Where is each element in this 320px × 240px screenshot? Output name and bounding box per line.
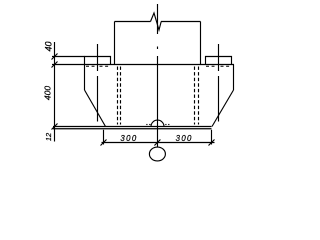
node center axis main [157, 56, 159, 147]
node right plate centerline lower [218, 76, 220, 122]
wire base line lower [53, 128, 212, 130]
svg-text:400: 400 [43, 86, 53, 100]
wire hidden edge under right plate (left of axis) [206, 65, 215, 67]
wire hidden edge under left plate (right of axis) [100, 65, 109, 67]
wire hidden edge under left plate (left of axis) [86, 65, 95, 67]
node right plate centerline upper [218, 44, 220, 71]
wire anchor dashed left b [120, 67, 122, 125]
wire anchor dashed right a [194, 67, 196, 125]
svg-text:300: 300 [176, 134, 193, 143]
wire column break top line left [115, 21, 151, 23]
node left plate [85, 57, 111, 65]
wire column right edge [200, 22, 202, 65]
node tick 400 bottom [52, 124, 58, 130]
node break zigzag [151, 13, 162, 30]
node right plate [206, 57, 232, 65]
node dome side dots left [146, 124, 147, 126]
wire extension left 300 [103, 130, 105, 145]
wire dimension line vertical [54, 42, 56, 142]
node center axis dot [157, 47, 159, 50]
wire foundation top surface [52, 64, 234, 66]
wire extension plate top level [52, 56, 85, 58]
wire hidden edge under right plate (right of axis) [221, 65, 230, 67]
node tick 300 right [209, 140, 215, 146]
wire bottom dimension line [102, 142, 215, 144]
node center axis upper [157, 4, 159, 34]
node left plate centerline upper [97, 44, 99, 71]
node dome side dots right [165, 124, 166, 126]
node tick 300 left [101, 140, 107, 146]
wire pedestal right slope [212, 90, 234, 127]
node tick 40 top [52, 54, 58, 60]
wire pedestal left slope [85, 90, 106, 127]
svg-text:300: 300 [120, 134, 137, 143]
wire extension right 300 [211, 130, 213, 145]
wire anchor dashed left a [117, 67, 119, 125]
wire anchor dashed right b [198, 67, 200, 125]
wire column left edge [114, 22, 116, 65]
wire base line upper [53, 126, 212, 128]
node dome arc [151, 120, 164, 126]
node tick 300 mid [154, 140, 160, 146]
svg-text:12: 12 [44, 132, 53, 141]
node axis bubble circle [149, 147, 165, 161]
node left plate centerline lower [97, 76, 99, 122]
wire column break top line right [161, 21, 201, 23]
node tick 40 bottom [52, 62, 58, 68]
wire pedestal left shoulder [84, 65, 86, 91]
wire pedestal right shoulder [233, 65, 235, 91]
svg-text:40: 40 [44, 41, 54, 51]
